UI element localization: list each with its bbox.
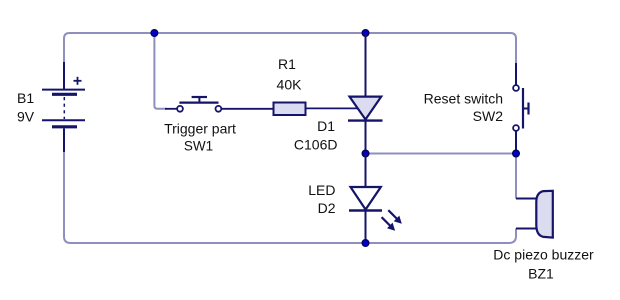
LED D2: [351, 187, 381, 210]
svg-text:BZ1: BZ1: [528, 266, 554, 282]
thyristor D1 anode lead: [365, 33, 367, 96]
switch SW1: [165, 97, 221, 112]
svg-text:C106D: C106D: [294, 136, 338, 152]
LED light arrow 2: [382, 217, 396, 231]
svg-text:LED: LED: [308, 182, 335, 198]
svg-text:Dc piezo buzzer: Dc piezo buzzer: [493, 247, 594, 263]
wire bottom right riser to buzzer: [509, 229, 516, 244]
resistor R1: [274, 103, 306, 116]
svg-text:Trigger part: Trigger part: [164, 121, 236, 137]
thyristor D1: [350, 97, 382, 120]
node junction middle right: [513, 150, 520, 157]
node junction top D1: [362, 30, 369, 37]
node junction middle left: [362, 150, 369, 157]
LED light arrow 1: [388, 210, 402, 224]
battery B1: [42, 62, 85, 152]
LED D2 anode lead: [365, 154, 367, 188]
svg-text:D2: D2: [318, 200, 336, 216]
buzzer BZ1 body: [536, 191, 553, 238]
svg-text:D1: D1: [317, 118, 335, 134]
svg-text:9V: 9V: [17, 109, 35, 125]
wire top rail: [64, 33, 516, 64]
svg-text:Reset switch: Reset switch: [424, 90, 503, 106]
svg-text:SW2: SW2: [473, 108, 504, 124]
buzzer BZ1 bottom pin: [516, 228, 536, 230]
wire left rail: [64, 150, 509, 243]
LED D2 cathode lead: [365, 211, 367, 244]
wire middle rail: [366, 153, 517, 155]
wire buzzer drop: [515, 154, 517, 199]
wire SW1 drop: [154, 33, 167, 109]
switch SW2: [513, 85, 528, 131]
thyristor D1 cathode lead: [365, 121, 367, 154]
LED D2 cathode bar: [349, 209, 382, 211]
wire SW2 lower lead: [515, 131, 517, 153]
node junction top SW1: [151, 30, 158, 37]
thyristor D1 cathode bar: [348, 119, 383, 121]
svg-text:R1: R1: [278, 56, 296, 72]
svg-text:B1: B1: [17, 90, 34, 106]
battery plus sign: [74, 77, 82, 85]
svg-text:40K: 40K: [277, 77, 303, 93]
switch SW2 top lead: [515, 63, 517, 85]
buzzer BZ1 top pin: [516, 198, 536, 200]
node junction bottom: [362, 240, 369, 247]
svg-text:SW1: SW1: [184, 139, 213, 154]
wire R1 to gate: [306, 107, 359, 109]
wire SW1 to R1: [222, 108, 274, 110]
